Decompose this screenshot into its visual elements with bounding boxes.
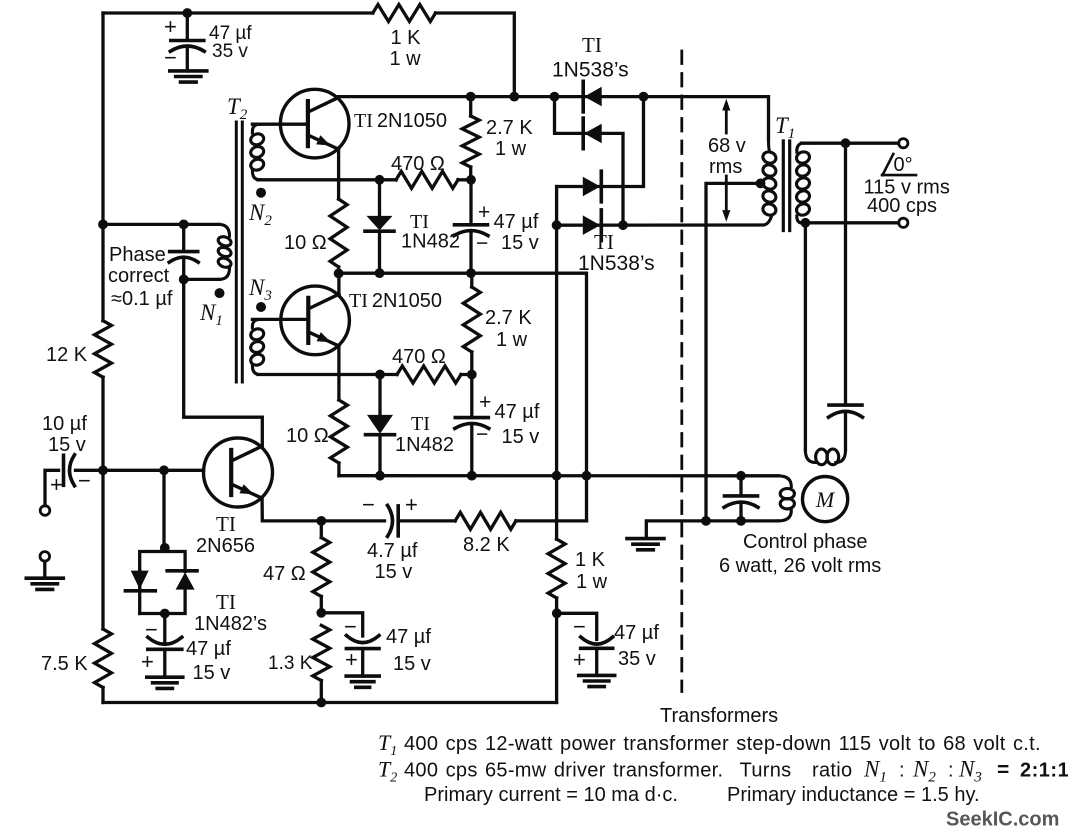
junction rail/phase xyxy=(98,220,108,230)
label C9 value xyxy=(186,638,231,684)
svg-text:+: + xyxy=(573,647,586,672)
svg-text:−: − xyxy=(78,468,91,493)
label C11 value xyxy=(614,622,659,670)
svg-text:68 v: 68 v xyxy=(708,135,746,157)
svg-text:400 cps 12-watt power transfor: 400 cps 12-watt power transformer step-d… xyxy=(404,733,1041,755)
label R7 value xyxy=(286,425,329,447)
svg-text:400 cps: 400 cps xyxy=(867,195,937,217)
resistor R10 47 ohm xyxy=(313,521,330,613)
label phase correct xyxy=(108,244,173,310)
svg-text:1 w: 1 w xyxy=(390,48,422,70)
svg-text:1N482’s: 1N482’s xyxy=(194,613,267,635)
resistor R3 7.5K xyxy=(95,629,112,688)
label output voltage xyxy=(864,176,950,198)
wire middle bus xyxy=(339,273,587,521)
label phase angle 0deg xyxy=(882,154,916,176)
label R13 value xyxy=(575,549,608,593)
dimension arrow 68v rms xyxy=(722,99,730,222)
svg-text:10 Ω: 10 Ω xyxy=(284,232,327,254)
svg-text:Primary inductance = 1.5 hy.: Primary inductance = 1.5 hy. xyxy=(727,784,980,806)
svg-text:≈0.1 µf: ≈0.1 µf xyxy=(111,288,173,310)
winding control phase xyxy=(646,476,794,538)
svg-text:TI: TI xyxy=(582,33,602,57)
label D4 xyxy=(395,413,454,456)
capacitor C11 47uF 35v xyxy=(581,637,613,675)
diode pair loop xyxy=(140,552,185,614)
wire base node to diode pair xyxy=(162,470,165,548)
label C7 polarity + xyxy=(50,472,63,497)
svg-text:10 µf: 10 µf xyxy=(42,413,87,435)
diode D6 TI 1N538 xyxy=(583,118,602,149)
svg-text:TI: TI xyxy=(216,512,236,536)
label C9 polarity - xyxy=(145,617,158,642)
label D3 xyxy=(401,211,460,253)
junction lower-bus x586 xyxy=(582,471,592,481)
junction rail/input xyxy=(98,465,108,475)
svg-text:TI: TI xyxy=(411,413,430,435)
node N3 phasing dot xyxy=(256,302,266,312)
label output frequency xyxy=(867,195,937,217)
wire Q1 collector to diode bus xyxy=(339,97,769,140)
svg-text:Primary current = 10 ma d·c.: Primary current = 10 ma d·c. xyxy=(424,784,678,806)
svg-text:N2: N2 xyxy=(912,757,936,786)
svg-text:+: + xyxy=(405,492,418,517)
label C8 polarity + xyxy=(405,492,418,517)
junction diode pair bottom xyxy=(160,609,170,619)
label D7-D8 type xyxy=(578,252,655,275)
winding N3 of T2 xyxy=(249,319,265,374)
label C1 polarity + xyxy=(164,14,177,39)
label R11 value xyxy=(463,534,510,556)
svg-text:1N482: 1N482 xyxy=(395,434,454,456)
capacitor C8 4.7uF 15v xyxy=(321,505,455,536)
svg-text:47 µf: 47 µf xyxy=(495,401,540,423)
junction secondary-top/motor-cap xyxy=(841,138,851,148)
label C4 polarity - xyxy=(476,423,488,446)
wire lower bus xyxy=(339,474,778,477)
ground for control phase xyxy=(627,539,664,550)
junction D8 left xyxy=(552,220,562,230)
winding T1 secondary xyxy=(795,143,811,223)
resistor R2 12K xyxy=(95,321,112,378)
svg-text:35 v: 35 v xyxy=(212,41,248,62)
svg-text:−: − xyxy=(476,232,488,255)
label C10 polarity - xyxy=(344,614,357,639)
terminal input ground xyxy=(40,552,50,578)
capacitor C5 motor series xyxy=(829,143,863,462)
svg-text:N2: N2 xyxy=(248,200,272,229)
label control rating xyxy=(719,555,881,577)
label C1 value xyxy=(209,23,252,62)
wire left supply rail xyxy=(101,13,104,703)
capacitor C4 47uF 15v xyxy=(455,375,489,476)
svg-text:1 w: 1 w xyxy=(576,571,608,593)
junction R10/R12/C10 xyxy=(316,608,326,618)
label D5-D6 TI xyxy=(582,33,602,57)
ground for C11 xyxy=(579,675,615,686)
label control phase xyxy=(743,531,868,553)
junction centertap/control xyxy=(701,516,711,526)
svg-text:T2: T2 xyxy=(378,757,397,786)
ground for C9 xyxy=(147,677,183,688)
wire to C11 xyxy=(557,613,597,639)
wire to C10 xyxy=(321,613,362,636)
wire D8 to T1 primary bottom xyxy=(557,223,763,226)
label R6 value xyxy=(486,117,533,160)
wire R8 to node xyxy=(461,373,472,376)
resistor R13 1K 1w xyxy=(548,476,565,614)
wire T1 secondary bottom to terminal xyxy=(802,221,899,224)
svg-text:470 Ω: 470 Ω xyxy=(392,346,446,368)
junction input/D-pair xyxy=(159,465,169,475)
svg-text:M: M xyxy=(815,487,836,512)
winding N1 of T2 xyxy=(184,224,233,279)
wire N3 bottom to bias node xyxy=(258,373,397,376)
svg-text:470 Ω: 470 Ω xyxy=(391,153,445,175)
resistor R7 10 ohm xyxy=(330,400,347,463)
winding N2 of T2 xyxy=(249,124,265,180)
label C9 polarity + xyxy=(141,649,154,674)
svg-text:TI 2N1050: TI 2N1050 xyxy=(349,290,442,312)
wire top supply rail xyxy=(103,13,514,97)
label C4 polarity + xyxy=(479,391,491,414)
svg-text:+: + xyxy=(345,647,358,672)
svg-text:−: − xyxy=(145,617,158,642)
label C10 value xyxy=(386,626,431,675)
diode D10 TI 1N482 xyxy=(167,571,197,590)
svg-text:10 Ω: 10 Ω xyxy=(286,425,329,447)
wire bottom return bus xyxy=(103,701,557,704)
label D9-D10 TI xyxy=(216,590,236,614)
label C8 value xyxy=(367,540,418,583)
ground for C1 xyxy=(170,71,207,82)
terminal input signal xyxy=(40,506,50,516)
junction R1-drop/collector-bus xyxy=(509,92,519,102)
label C4 value xyxy=(495,401,540,423)
svg-text:35 v: 35 v xyxy=(618,648,656,670)
ground for C10 xyxy=(346,676,379,687)
label D5-D6 type xyxy=(552,58,629,81)
label C8 polarity - xyxy=(362,492,375,517)
svg-text:Transformers: Transformers xyxy=(660,705,778,727)
label C3 value xyxy=(494,211,539,233)
wire motor left leg xyxy=(805,223,815,463)
resistor R5 470 ohm xyxy=(396,171,458,188)
capacitor C9 47uF 15v xyxy=(148,614,182,678)
label note line2 xyxy=(378,757,1068,786)
label Q1 xyxy=(354,110,447,132)
dashed separator line xyxy=(680,51,683,692)
winding motor main phase xyxy=(816,449,839,465)
ground input xyxy=(26,578,63,589)
svg-text:2.7 K: 2.7 K xyxy=(485,307,532,329)
svg-text:1N482: 1N482 xyxy=(401,231,460,253)
wire N2 bottom to bias node xyxy=(258,178,396,181)
svg-text:15 v: 15 v xyxy=(193,662,231,684)
junction Q1e/Q2c/bus xyxy=(334,269,344,279)
label T1 xyxy=(775,113,795,142)
svg-text:0°: 0° xyxy=(894,154,913,176)
node N1 phasing dot xyxy=(215,288,225,298)
transformer T1 core xyxy=(783,141,789,231)
svg-text:TI: TI xyxy=(594,230,614,254)
svg-text:correct: correct xyxy=(108,265,170,287)
junction lower-bus x556 xyxy=(552,471,562,481)
diode D7 TI 1N538 xyxy=(583,171,602,202)
junction diode pair top xyxy=(160,543,170,553)
svg-text:2.7 K: 2.7 K xyxy=(486,117,533,139)
wire phase node to Q3 collector xyxy=(184,279,263,446)
label N3 xyxy=(248,275,272,304)
label T2 xyxy=(227,94,248,123)
junction collector-bus/D5-D6 xyxy=(550,92,560,102)
svg-text:1 w: 1 w xyxy=(496,329,528,351)
svg-text:47 µf: 47 µf xyxy=(386,626,431,648)
svg-text:1 K: 1 K xyxy=(575,549,606,571)
junction N3btm/D4 xyxy=(375,370,385,380)
wire D7 branch xyxy=(557,97,644,187)
wire Q1 emitter leg xyxy=(337,149,340,199)
svg-text:N3: N3 xyxy=(958,757,982,786)
svg-text:1N538’s: 1N538’s xyxy=(578,252,655,275)
svg-text:T1: T1 xyxy=(775,113,795,142)
svg-text:+: + xyxy=(50,472,63,497)
diode D5 TI 1N538 xyxy=(583,81,602,112)
label C7 value xyxy=(42,413,87,456)
wire Q3 emitter to C8 xyxy=(262,499,321,521)
diode D9 TI 1N482 xyxy=(125,571,155,591)
wire Q2 collector leg xyxy=(337,273,340,295)
svg-text:Turns: Turns xyxy=(740,760,792,782)
label D7-D8 TI xyxy=(594,230,614,254)
transistor Q1 TI 2N1050 xyxy=(280,89,349,158)
label Q2 xyxy=(349,290,442,312)
svg-text:−: − xyxy=(476,423,488,446)
junction D3 mid-bus xyxy=(375,268,385,278)
label R10 value xyxy=(263,563,306,585)
svg-text:N1: N1 xyxy=(199,300,223,329)
transformer T2 core xyxy=(236,122,242,382)
label R3 value xyxy=(41,653,88,675)
junction emitter/R10 xyxy=(316,516,326,526)
junction N2btm/D3 xyxy=(375,175,385,185)
label N2 xyxy=(248,200,272,229)
svg-text:ratio: ratio xyxy=(812,760,852,782)
svg-text:1 K: 1 K xyxy=(391,27,422,49)
node N2 phasing dot xyxy=(256,188,266,198)
wire D6 branch xyxy=(555,97,624,226)
label R1 value xyxy=(390,27,422,70)
label C1 polarity - xyxy=(164,45,177,70)
svg-text:T1: T1 xyxy=(378,730,397,759)
capacitor C2 phase correct 0.1uF xyxy=(169,224,198,279)
svg-text:47 µf: 47 µf xyxy=(186,638,231,660)
junction R13/C11 xyxy=(552,608,562,618)
label 68v rms xyxy=(708,135,746,178)
junction R5/C3/R6 xyxy=(466,175,476,185)
svg-text:2:1:1: 2:1:1 xyxy=(1020,760,1068,782)
junction C3 mid-bus xyxy=(466,268,476,278)
svg-text:15 v: 15 v xyxy=(393,653,431,675)
svg-text:−: − xyxy=(164,45,177,70)
winding T1 primary xyxy=(761,140,777,226)
svg-text:rms: rms xyxy=(709,156,742,178)
label note line1 xyxy=(378,730,1041,759)
label watermark xyxy=(946,809,1059,831)
svg-text:7.5 K: 7.5 K xyxy=(41,653,88,675)
svg-text:TI 2N1050: TI 2N1050 xyxy=(354,110,447,132)
label C7 polarity - xyxy=(78,468,91,493)
wire R7 to lower bus xyxy=(337,463,340,476)
label C3 voltage xyxy=(501,232,539,254)
label D9-D10 type xyxy=(194,613,267,635)
resistor R12 1.3K xyxy=(313,625,330,702)
label R12 value xyxy=(268,653,313,674)
wire T1 center tap xyxy=(706,183,761,521)
svg-text:Phase: Phase xyxy=(109,244,166,266)
junction R12 bottom-bus xyxy=(316,698,326,708)
wire R5 to node xyxy=(458,178,471,181)
svg-text:SeekIC.com: SeekIC.com xyxy=(946,809,1059,831)
resistor R4 10 ohm xyxy=(330,199,347,267)
svg-text:+: + xyxy=(141,649,154,674)
wire Q2 emitter leg xyxy=(337,346,340,400)
label C3 polarity - xyxy=(476,232,488,255)
label N1 xyxy=(199,300,223,329)
diode D3 TI 1N482 xyxy=(365,180,394,273)
svg-text:2N656: 2N656 xyxy=(196,535,255,557)
resistor R9 2.7K 1w xyxy=(463,273,480,374)
wire T1 secondary top to terminal xyxy=(802,142,899,145)
terminal output hot xyxy=(899,139,908,148)
svg-text:15 v: 15 v xyxy=(48,434,86,456)
wire R4 to mid bus xyxy=(337,267,340,273)
capacitor C1 47uF 35v xyxy=(170,13,204,71)
transistor Q2 TI 2N1050 xyxy=(281,286,350,355)
wire R13 to bottom bus xyxy=(555,613,558,702)
junction D8/D6 right xyxy=(618,220,628,230)
label C11 polarity - xyxy=(573,614,586,639)
svg-text:Control phase: Control phase xyxy=(743,531,868,553)
svg-text:1.3 K: 1.3 K xyxy=(268,653,313,674)
label R8 value xyxy=(392,346,446,368)
svg-text:=: = xyxy=(997,759,1009,782)
svg-text:T2: T2 xyxy=(227,94,248,123)
label R5 value xyxy=(391,153,445,175)
junction R8/C4/R9 xyxy=(467,370,477,380)
label Q3 xyxy=(196,512,255,557)
terminal output neutral xyxy=(899,218,908,227)
label R9 value xyxy=(485,307,532,351)
svg-text:15 v: 15 v xyxy=(502,426,540,448)
label C11 polarity + xyxy=(573,647,586,672)
junction secondary-bottom/motor xyxy=(801,218,811,228)
svg-text:+: + xyxy=(478,201,490,224)
wire input to C7 xyxy=(45,470,59,505)
junction center tap xyxy=(756,179,766,189)
svg-text:−: − xyxy=(573,614,586,639)
wire Q1 base xyxy=(252,123,308,126)
svg-text:+: + xyxy=(479,391,491,414)
svg-text:−: − xyxy=(344,614,357,639)
svg-text:400 cps 65-mw driver transform: 400 cps 65-mw driver transformer. xyxy=(404,760,723,782)
svg-text:15 v: 15 v xyxy=(375,561,413,583)
junction control top xyxy=(736,471,746,481)
label C4 voltage xyxy=(502,426,540,448)
label C3 polarity + xyxy=(478,201,490,224)
wire Q2 base xyxy=(252,318,308,321)
wire R11 to bus riser xyxy=(516,519,587,522)
junction phase bottom xyxy=(179,275,189,285)
svg-text:4.7 µf: 4.7 µf xyxy=(367,540,418,562)
junction D5/row3 riser xyxy=(639,92,649,102)
capacitor C6 control phase xyxy=(724,476,758,521)
svg-text:15 v: 15 v xyxy=(501,232,539,254)
svg-text::: : xyxy=(899,760,905,782)
label R4 value xyxy=(284,232,327,254)
resistor R8 470 ohm xyxy=(397,366,461,383)
junction R6 top xyxy=(466,92,476,102)
label transformers heading xyxy=(660,705,778,727)
svg-text:N3: N3 xyxy=(248,275,272,304)
junction supply/C1 xyxy=(182,8,192,18)
transistor Q3 TI 2N656 xyxy=(204,438,273,507)
junction control bottom xyxy=(736,516,746,526)
svg-text:47 µf: 47 µf xyxy=(614,622,659,644)
svg-text::: : xyxy=(948,760,954,782)
label C10 polarity + xyxy=(345,647,358,672)
junction phase top xyxy=(179,220,189,230)
junction D4 lower-bus xyxy=(375,471,385,481)
svg-text:+: + xyxy=(164,14,177,39)
svg-text:TI: TI xyxy=(216,590,236,614)
svg-text:47 µf: 47 µf xyxy=(494,211,539,233)
svg-text:47 Ω: 47 Ω xyxy=(263,563,306,585)
svg-text:12 K: 12 K xyxy=(46,344,88,366)
resistor R1 1K 1w xyxy=(373,5,436,22)
diode D8 TI 1N538 xyxy=(583,210,602,241)
svg-text:6 watt, 26 volt rms: 6 watt, 26 volt rms xyxy=(719,555,881,577)
resistor R6 2.7K 1w xyxy=(462,97,479,180)
capacitor C7 10uF 15v xyxy=(64,455,204,486)
capacitor C10 47uF 15v xyxy=(346,636,379,677)
capacitor C3 47uF 15v xyxy=(454,180,488,273)
resistor R11 8.2K xyxy=(455,512,516,529)
svg-text:1 w: 1 w xyxy=(495,138,527,160)
label R2 value xyxy=(46,344,88,366)
svg-text:1N538’s: 1N538’s xyxy=(552,58,629,81)
wire supply to phase-correct node xyxy=(103,223,184,226)
svg-text:N1: N1 xyxy=(863,757,887,786)
svg-text:−: − xyxy=(362,492,375,517)
junction C4 lower-bus xyxy=(467,471,477,481)
diode D4 TI 1N482 xyxy=(366,375,395,476)
label note line3 xyxy=(424,784,980,806)
motor M1 xyxy=(803,477,848,522)
svg-text:8.2 K: 8.2 K xyxy=(463,534,510,556)
wire D8 branch riser xyxy=(555,187,558,476)
